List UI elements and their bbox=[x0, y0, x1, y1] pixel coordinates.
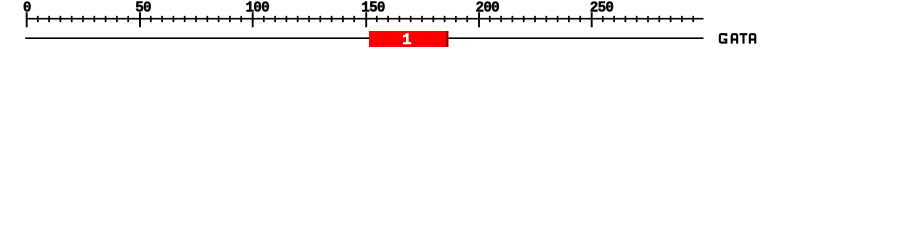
feature baseline bbox=[25, 37, 703, 39]
minor ticks (every 5 units) bbox=[38, 16, 693, 22]
svg-text:200: 200 bbox=[476, 1, 500, 17]
feature box right shade bbox=[446, 31, 448, 47]
svg-text:100: 100 bbox=[245, 1, 269, 17]
svg-text:0: 0 bbox=[23, 1, 31, 17]
feature name GATA bbox=[720, 33, 755, 44]
svg-text:1: 1 bbox=[402, 31, 412, 49]
svg-text:250: 250 bbox=[590, 1, 614, 17]
svg-text:150: 150 bbox=[361, 1, 385, 17]
feature box (red) spanning ~152-187 bbox=[369, 31, 449, 47]
major ticks (every 50 units) bbox=[27, 12, 592, 27]
svg-text:50: 50 bbox=[135, 1, 151, 17]
background bbox=[0, 0, 900, 58]
ruler axis line bbox=[26, 18, 704, 20]
